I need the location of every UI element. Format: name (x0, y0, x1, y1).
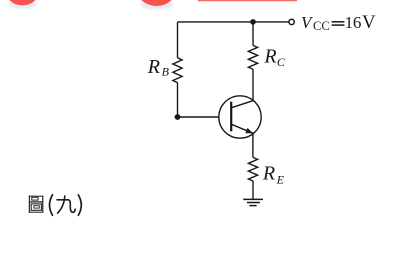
svg-text:B: B (162, 64, 170, 78)
ground symbol (243, 199, 263, 205)
red badge circle (cropped, top-left) (3, 0, 41, 5)
figure caption: 圖 glyph (drawn) (29, 196, 44, 213)
wire: base node to transistor base (178, 116, 219, 118)
figure caption: closing paren (78, 195, 81, 216)
svg-text:R: R (262, 163, 275, 185)
wire: RB bottom to base node (177, 83, 179, 117)
svg-text:C: C (277, 55, 286, 69)
transistor Q1 circle (219, 96, 261, 138)
svg-text:CC: CC (313, 19, 330, 33)
svg-text:R: R (147, 56, 160, 78)
wire: top rail from RB branch to VCC terminal (178, 21, 289, 23)
red badge shadow (top-left) (8, 0, 37, 8)
transistor Q1 collector lead (231, 101, 253, 108)
junction node at top rail / collector (250, 19, 256, 25)
transistor Q1 base bar (230, 102, 232, 132)
svg-text:V: V (362, 13, 376, 33)
svg-text:6: 6 (353, 13, 362, 32)
svg-text:1: 1 (345, 13, 354, 32)
figure caption: 九 glyph (drawn) (57, 196, 75, 213)
wire: RE bottom to ground (252, 181, 254, 199)
svg-text:R: R (263, 46, 276, 68)
wire: RC bottom to collector (252, 69, 254, 101)
svg-text:E: E (276, 173, 285, 187)
red badge circle (cropped, top-middle) (134, 0, 179, 6)
wire: left branch top (rail down to RB) (177, 22, 179, 58)
VCC open terminal (289, 19, 294, 24)
resistor RB zigzag (173, 58, 182, 83)
resistor RE zigzag (248, 157, 257, 181)
transistor Q1 emitter lead (231, 124, 253, 133)
junction node at base (175, 114, 181, 120)
figure caption: opening paren (50, 195, 53, 216)
wire: collector rail down to RC (252, 22, 254, 46)
red badge shadow (top-middle) (140, 1, 173, 10)
wire: emitter down to RE (252, 133, 254, 157)
transistor Q1 emitter arrowhead (245, 128, 253, 133)
resistor RC zigzag (248, 45, 257, 69)
red underline fragment (cropped, top) (199, 0, 297, 2)
